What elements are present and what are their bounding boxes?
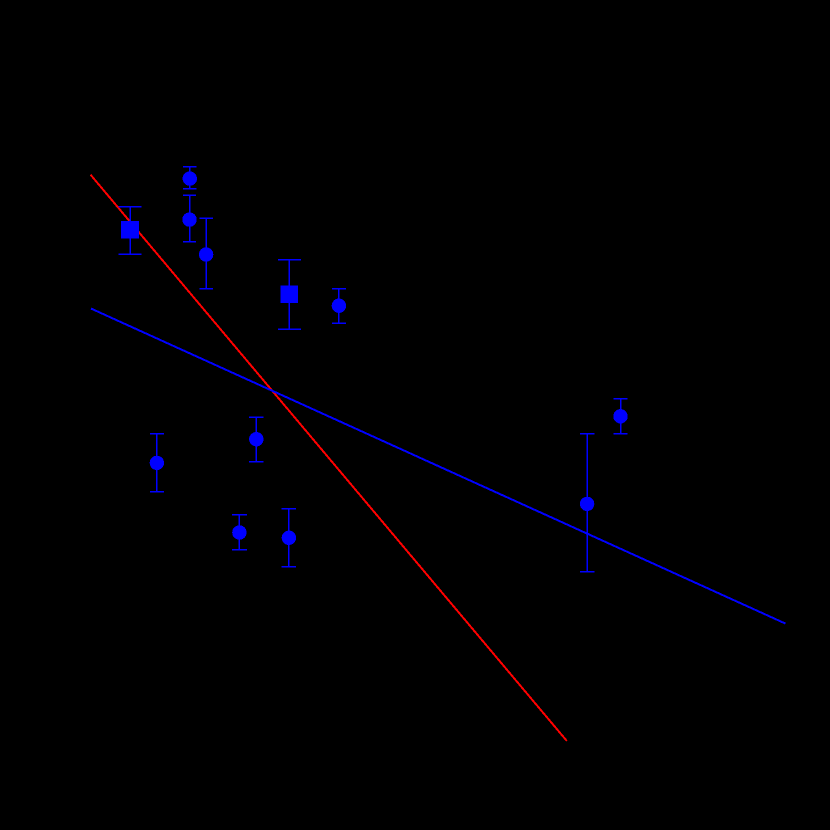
error bar point 3	[183, 195, 196, 242]
blue fit line	[91, 309, 786, 624]
data point 4 circle	[199, 247, 213, 261]
error bar square point 2	[119, 207, 142, 255]
error bar point 8	[150, 434, 164, 492]
data point 2 square	[121, 221, 139, 239]
data point 8 circle	[150, 456, 164, 470]
error bar point 9	[232, 515, 247, 550]
error bar point 4	[199, 218, 212, 289]
data point 5 square	[281, 286, 299, 304]
data point 9 circle	[232, 525, 246, 539]
red fit line	[91, 175, 567, 741]
data point 6 circle	[332, 299, 346, 313]
error bar point 6	[332, 289, 346, 323]
error bar point 11	[613, 399, 627, 434]
error bar square point 5	[278, 260, 301, 329]
data point 12 circle	[580, 497, 594, 511]
data point 7 circle	[249, 432, 263, 446]
data point 1 circle	[183, 171, 197, 185]
error bar point 7	[249, 417, 263, 462]
error bar point 12	[580, 434, 594, 572]
data point 3 circle	[182, 212, 196, 226]
data point 10 circle	[282, 531, 296, 545]
error bar point 10	[282, 509, 296, 567]
data point 11 circle	[613, 409, 627, 423]
error bar point 1	[183, 167, 196, 189]
